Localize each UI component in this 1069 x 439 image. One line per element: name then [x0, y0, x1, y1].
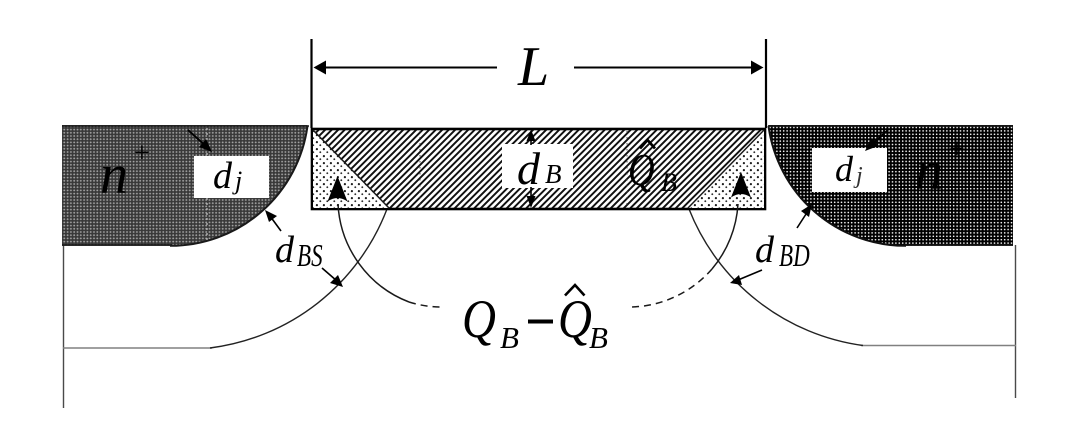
- svg-text:B: B: [545, 159, 562, 189]
- svg-text:Q: Q: [558, 289, 592, 349]
- svg-text:d: d: [275, 229, 295, 271]
- svg-text:B: B: [500, 320, 519, 355]
- svg-text:d: d: [213, 155, 233, 197]
- svg-text:d: d: [517, 143, 541, 194]
- svg-text:n: n: [100, 144, 128, 206]
- svg-text:n: n: [915, 140, 943, 202]
- svg-text:d: d: [835, 149, 854, 189]
- svg-text:Q: Q: [628, 145, 655, 196]
- svg-text:d: d: [755, 229, 775, 271]
- svg-text:Q: Q: [462, 289, 496, 349]
- svg-text:+: +: [134, 138, 150, 169]
- svg-text:L: L: [517, 36, 549, 98]
- svg-text:BS: BS: [297, 238, 323, 274]
- svg-text:B: B: [589, 320, 608, 355]
- svg-text:+: +: [949, 134, 965, 165]
- svg-text:B: B: [661, 168, 677, 197]
- svg-text:BD: BD: [779, 238, 810, 274]
